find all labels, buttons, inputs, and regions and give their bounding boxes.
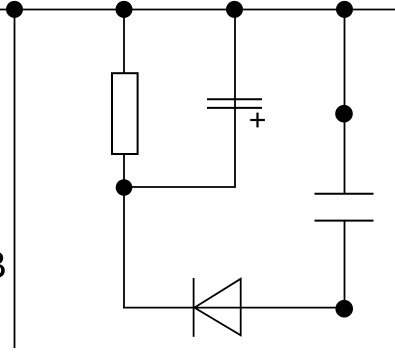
wire bottom horizontal: [123, 307, 344, 309]
wire node to capacitor C1: [124, 186, 235, 188]
node label B (clipped at left edge): [0, 252, 5, 278]
diode D1 cathode bar: [193, 278, 195, 337]
wire capacitor C1 vertical: [234, 10, 236, 188]
capacitor C1 bottom plate: [207, 107, 262, 109]
wire resistor bottom to corner: [123, 154, 125, 309]
node top left: [6, 1, 23, 18]
capacitor C1 top plate: [207, 98, 262, 100]
wire top rail: [0, 9, 395, 11]
wire right branch upper: [344, 10, 346, 194]
diode D1 triangle: [194, 279, 240, 336]
node top capacitor branch: [226, 1, 243, 18]
capacitor C2 bottom plate: [315, 220, 374, 222]
node top resistor branch: [116, 1, 133, 18]
resistor R1: [112, 73, 138, 154]
capacitor C1 plus polarity: [250, 119, 265, 121]
node bottom right junction: [335, 300, 353, 318]
node top right branch: [336, 1, 353, 18]
wire resistor branch top: [123, 10, 125, 74]
node right branch middle: [335, 105, 353, 123]
wire right branch lower: [344, 221, 346, 309]
capacitor C2 top plate: [315, 193, 374, 195]
node resistor bottom junction: [116, 179, 133, 196]
wire left vertical: [14, 10, 16, 349]
